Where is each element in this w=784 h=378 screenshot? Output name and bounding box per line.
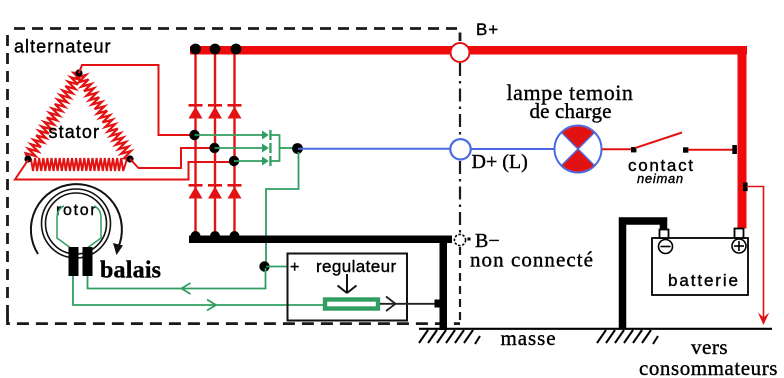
wire stator bottom-right to column 2 — [130, 148, 213, 168]
B+ bus vertical to battery — [738, 46, 747, 229]
stator node bottom-left dot — [24, 155, 31, 162]
svg-text:de charge: de charge — [530, 99, 612, 123]
diode D2 (upper, column 2) — [208, 104, 222, 119]
svg-text:regulateur: regulateur — [316, 257, 397, 276]
green diode G3 — [262, 156, 272, 166]
rotor body outer circle — [42, 189, 111, 258]
green wire D+ down to regulator — [266, 152, 299, 262]
stator node bottom-right dot — [126, 155, 133, 162]
terminal D+ node — [450, 139, 470, 159]
battery negative post — [660, 230, 669, 239]
svg-text:stator: stator — [49, 122, 101, 142]
wire rectifier row 2 to green diode 2 — [215, 147, 263, 149]
green cathode rail — [271, 135, 280, 161]
wire stator bottom-left to column 3 — [15, 160, 232, 180]
brush bar right — [83, 247, 93, 276]
ground hatching left (masse) — [419, 330, 480, 344]
junction dot before B- label — [468, 238, 471, 241]
alternator dashed enclosure bottom edge — [8, 314, 461, 324]
junction dot rectifier row 1 — [189, 130, 199, 140]
diode D6 (lower, column 3) — [228, 184, 242, 199]
stator winding bottom (zigzag) — [31, 158, 127, 171]
diode D3 (upper, column 3) — [228, 104, 242, 119]
alternator dashed enclosure top edge — [14, 29, 460, 42]
terminal B- node — [454, 234, 465, 245]
rotor body inner circle — [46, 193, 107, 254]
svg-text:batterie: batterie — [668, 271, 740, 290]
junction dot D+ takeoff — [292, 143, 303, 154]
switch contact pivot — [631, 147, 636, 152]
junction bump column 3 — [230, 231, 240, 241]
arrowhead to consumers — [758, 313, 769, 326]
wire resistor to ground bus — [380, 303, 440, 305]
switch blade — [635, 133, 682, 149]
diode column 3 conductor — [233, 49, 235, 236]
svg-text:alternateur: alternateur — [14, 37, 112, 57]
lamp (warning light) body — [555, 126, 602, 173]
ground hatching right (battery) — [597, 330, 658, 344]
junction bump column 2 — [210, 231, 220, 241]
junction tick at bus — [732, 145, 737, 154]
rotor rotation arrowhead — [113, 243, 123, 255]
battery positive post — [735, 229, 744, 239]
terminal B+ node — [451, 43, 470, 62]
wire junction to regulator plus — [266, 266, 288, 268]
svg-text:balais: balais — [100, 258, 161, 284]
rotor winding green — [57, 206, 101, 248]
battery positive terminal — [732, 239, 746, 253]
stator winding left (zigzag) — [26, 73, 81, 159]
wire rectifier row 1 to green diode 1 — [195, 134, 263, 136]
green diode G1 — [262, 130, 272, 140]
svg-text:rotor: rotor — [56, 202, 97, 219]
battery negative terminal — [659, 240, 673, 254]
svg-text:consommateurs: consommateurs — [639, 356, 778, 378]
stator winding right (zigzag) — [76, 73, 131, 159]
wire to consumers (thin red) — [747, 187, 764, 319]
wire D+ terminal to lamp (blue) — [471, 148, 555, 150]
arrowhead on field wire (right) — [207, 300, 216, 311]
svg-text:non connecté: non connecté — [470, 248, 594, 272]
regulator box — [288, 254, 408, 321]
diode column 2 conductor — [214, 49, 216, 236]
junction dot rectifier row 2 — [209, 143, 219, 153]
lamp upper red sector — [562, 126, 594, 149]
brush bar left — [69, 247, 79, 276]
wire lamp to switch (red) — [602, 148, 633, 150]
junction tick consumers takeoff — [743, 183, 748, 192]
junction square on ground wire — [435, 300, 443, 308]
junction dot rectifier row 3 — [229, 156, 239, 166]
stator node apex dot — [75, 69, 82, 76]
svg-text:masse: masse — [501, 326, 557, 350]
lamp cross lines — [561, 132, 594, 165]
diode D1 (upper, column 1) — [189, 104, 203, 119]
svg-text:+: + — [290, 259, 299, 276]
wire switch to B+ bus (red) — [688, 149, 737, 151]
junction dot bus column 1 — [190, 44, 201, 55]
regulator adjust arrow — [338, 274, 357, 293]
wire D+ blue to terminal — [298, 148, 450, 150]
alternator boundary dash-dot segment D+ to B- — [459, 161, 461, 233]
junction dot bus column 2 — [210, 44, 221, 55]
svg-text:neiman: neiman — [637, 171, 684, 186]
regulator resistor (green) — [325, 300, 378, 309]
junction dot bus column 3 — [231, 44, 242, 55]
battery negative wire (thick black) — [623, 221, 664, 329]
B- bus bar (thick black) — [189, 236, 452, 244]
wire rail to D+ junction — [280, 147, 295, 149]
diode D4 (lower, column 1) — [189, 184, 203, 199]
svg-text:B+: B+ — [476, 20, 499, 39]
wire stator apex to column 1 — [79, 65, 193, 135]
arrowhead resistor output — [386, 297, 396, 312]
B+ bus bar (thick red) — [190, 46, 747, 55]
diode D5 (lower, column 2) — [208, 184, 222, 199]
ground rail — [419, 328, 772, 330]
wire junction down to field return — [88, 268, 266, 289]
alternator boundary dashed segment below B- — [459, 247, 461, 323]
switch contact fixed — [683, 147, 688, 152]
arrowhead on return wire (left) — [182, 283, 191, 294]
battery box — [652, 238, 748, 295]
wire left brush to regulator resistor — [73, 276, 323, 305]
junction bump column 1 — [191, 231, 201, 241]
rotor outer rotation arc — [31, 184, 122, 254]
thick black wire bus to ground — [440, 239, 448, 330]
lamp lower red sector — [562, 149, 594, 172]
green diode G2 — [262, 143, 272, 153]
alternator boundary dash-dot segment B+ to D+ — [459, 63, 461, 138]
svg-text:D+ (L): D+ (L) — [472, 151, 528, 173]
wire rectifier row 3 to green diode 3 — [234, 160, 262, 162]
diode column 1 conductor — [194, 49, 196, 236]
alternator dashed enclosure left edge — [6, 35, 9, 318]
junction dot regulator plus — [259, 261, 269, 271]
